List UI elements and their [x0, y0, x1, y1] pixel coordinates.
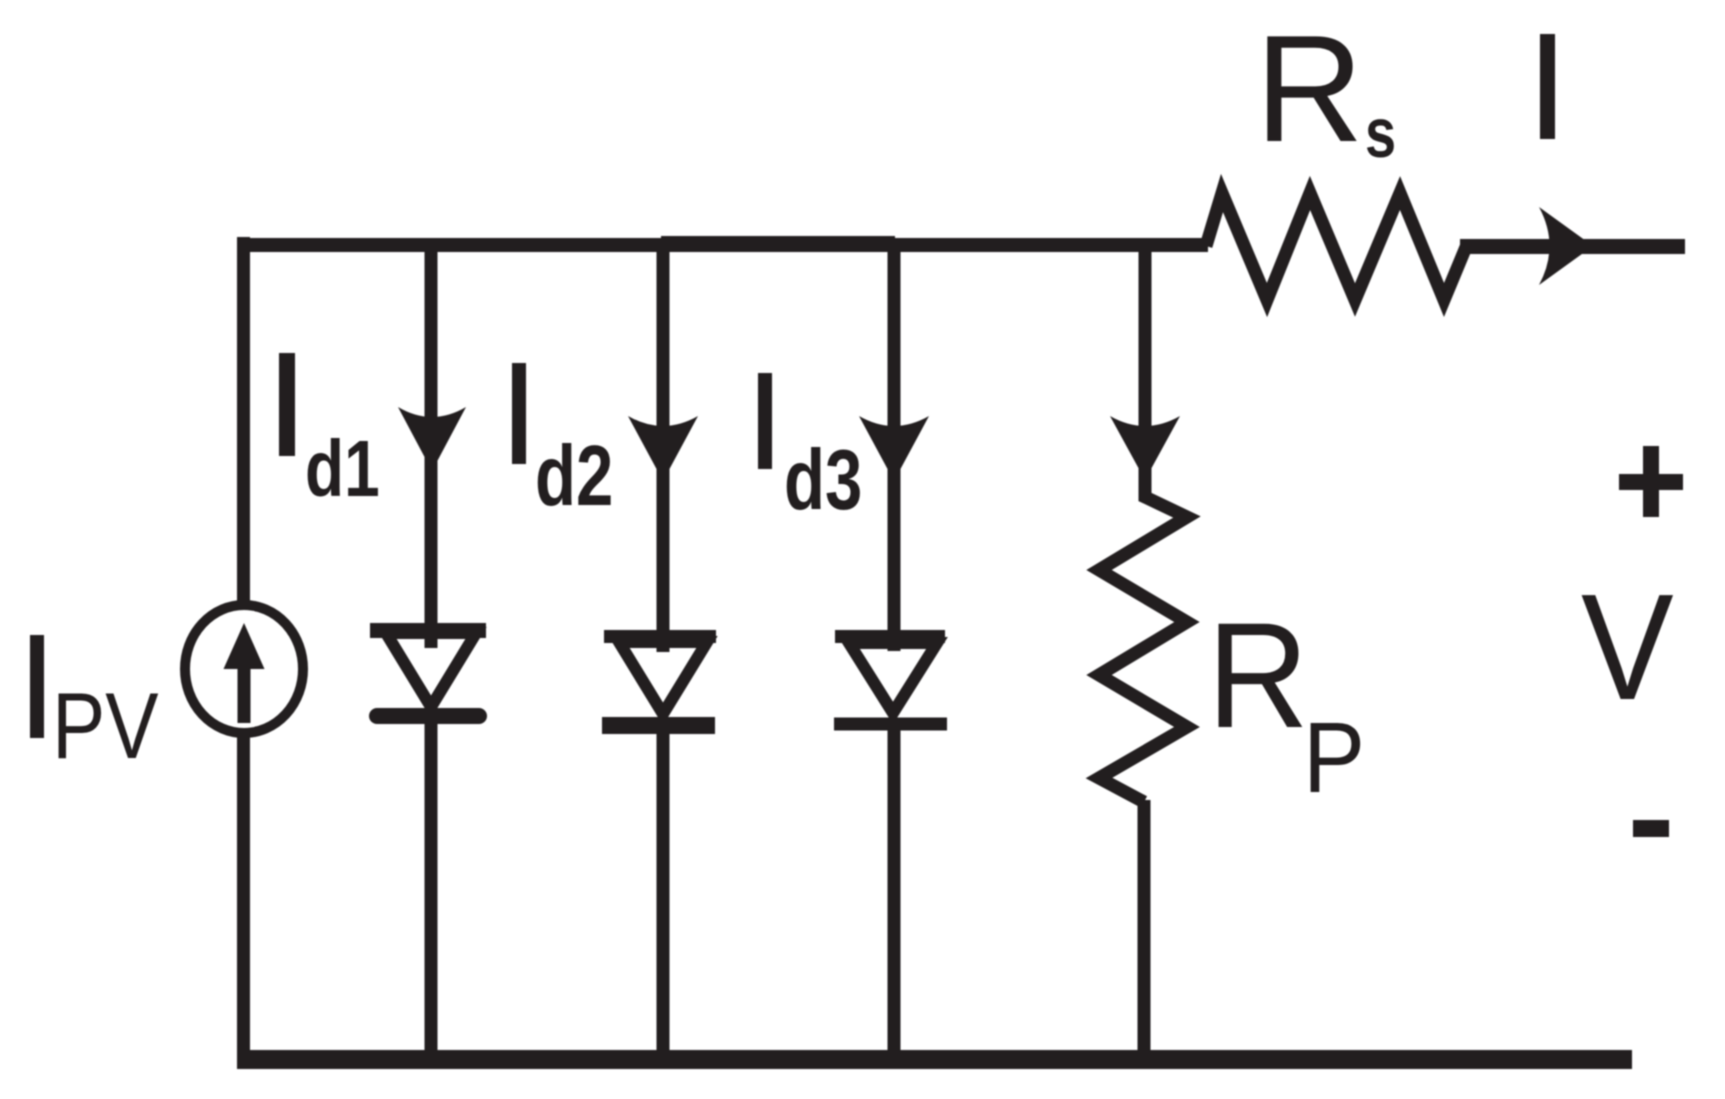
svg-text:d1: d1 — [305, 424, 380, 513]
svg-text:R: R — [1255, 4, 1364, 174]
svg-text:V: V — [1581, 563, 1674, 732]
svg-text:s: s — [1365, 95, 1396, 172]
svg-text:d2: d2 — [535, 430, 613, 524]
svg-text:P: P — [1303, 703, 1365, 814]
svg-text:R: R — [1207, 591, 1309, 759]
svg-text:PV: PV — [52, 674, 159, 779]
svg-text:d3: d3 — [784, 434, 862, 528]
